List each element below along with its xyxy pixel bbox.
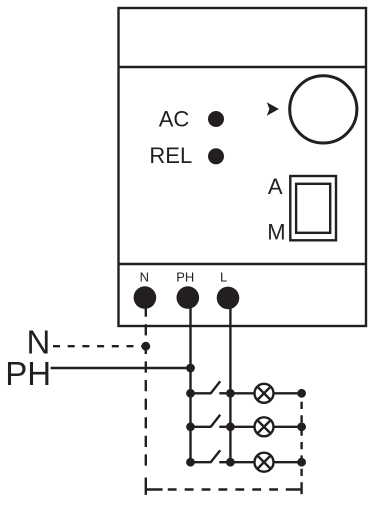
node E1 return	[297, 389, 306, 398]
node S1 right	[226, 389, 235, 398]
node E3 return	[297, 458, 306, 467]
device top band divider	[119, 66, 367, 68]
node E2 return	[297, 422, 306, 431]
wire neutral return dashed horizontal	[168, 488, 286, 490]
push-button S2	[191, 415, 231, 427]
selector switch SW1 outer frame	[290, 176, 336, 240]
terminal N	[134, 286, 157, 309]
lamp E2	[230, 417, 301, 436]
wire neutral dashed horizontal	[53, 345, 146, 347]
node neutral tap	[141, 342, 150, 351]
wire return corner bottom right	[286, 482, 302, 494]
LED REL	[208, 148, 224, 164]
wire phase horizontal	[51, 367, 191, 369]
terminal L	[217, 287, 240, 310]
wire neutral dashed vertical	[145, 306, 147, 472]
wire phase vertical	[189, 308, 191, 462]
selector switch SW1 inner frame	[296, 184, 330, 233]
device terminal band divider	[119, 263, 367, 265]
svg-text:N: N	[140, 270, 149, 285]
knob (timer dial)	[290, 76, 357, 143]
lamp E1	[230, 384, 301, 403]
wire lamp return dashed vertical	[300, 393, 302, 482]
svg-text:PH: PH	[5, 355, 51, 392]
node phase junction	[186, 364, 195, 373]
wire lamp feed vertical from terminal L	[229, 308, 231, 462]
svg-text:AC: AC	[159, 107, 190, 132]
push-button S1	[191, 381, 231, 393]
device enclosure U1 outline	[119, 8, 367, 326]
knob pointer arrow	[267, 102, 279, 116]
terminal PH	[177, 286, 200, 309]
svg-text:REL: REL	[149, 143, 192, 168]
node S2 left	[186, 422, 195, 431]
node S3 left	[186, 458, 195, 467]
LED AC	[208, 111, 224, 127]
node S3 right	[226, 458, 235, 467]
push-button S3	[191, 450, 231, 462]
svg-text:M: M	[267, 219, 285, 244]
node S1 left	[186, 389, 195, 398]
svg-text:A: A	[268, 174, 283, 199]
lamp E3	[230, 453, 301, 472]
svg-text:PH: PH	[176, 270, 194, 285]
svg-text:L: L	[220, 270, 227, 285]
node S2 right	[226, 422, 235, 431]
wire neutral corner bottom left	[146, 478, 163, 495]
